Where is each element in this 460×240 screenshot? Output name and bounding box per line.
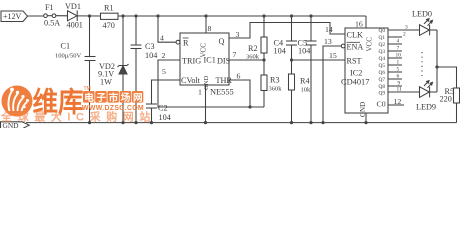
svg-text:10: 10 bbox=[396, 53, 402, 59]
svg-text:16: 16 bbox=[355, 20, 363, 29]
svg-text:全球最大IC采购网站: 全球最大IC采购网站 bbox=[0, 110, 156, 124]
wire CVolt pin5 bbox=[152, 80, 181, 104]
wire bus to R5 bbox=[437, 67, 457, 88]
capacitor C2 bbox=[146, 103, 157, 105]
svg-text:F1: F1 bbox=[45, 3, 54, 12]
svg-text:NE555: NE555 bbox=[210, 88, 234, 97]
svg-text:470: 470 bbox=[103, 21, 115, 30]
wire ENA pin13 bbox=[323, 46, 341, 123]
wire VD2 branch bbox=[122, 16, 124, 66]
wire VD1 to R1 bbox=[77, 15, 100, 17]
svg-text:VD1: VD1 bbox=[65, 2, 81, 11]
node junction VD2 bbox=[121, 14, 124, 17]
svg-text:THR: THR bbox=[216, 76, 233, 85]
svg-text:Q3: Q3 bbox=[379, 49, 386, 55]
wire TRIG pin2 bbox=[158, 60, 264, 107]
svg-text:GND: GND bbox=[359, 102, 367, 117]
svg-text:0.5A: 0.5A bbox=[44, 19, 60, 28]
svg-text:4001: 4001 bbox=[67, 21, 83, 30]
pin stub Q8 bbox=[388, 85, 402, 87]
svg-text:2: 2 bbox=[162, 51, 166, 60]
svg-text:Q5: Q5 bbox=[379, 63, 386, 69]
node junction pin4 bbox=[156, 14, 159, 17]
svg-text:100μ/50V: 100μ/50V bbox=[55, 53, 82, 60]
node junction C4 bbox=[290, 14, 293, 17]
node junction pin8 bbox=[204, 14, 207, 17]
node C3 ground bbox=[134, 121, 137, 124]
pin stub Q1 bbox=[388, 36, 402, 38]
svg-text:6: 6 bbox=[397, 74, 400, 80]
node C5 ground bbox=[309, 121, 312, 124]
orange blocks dianzi shichangwang bbox=[83, 91, 145, 104]
node VD2 ground bbox=[121, 121, 124, 124]
svg-text:1: 1 bbox=[397, 60, 400, 66]
svg-text:104: 104 bbox=[274, 47, 286, 56]
svg-text:13: 13 bbox=[324, 37, 332, 46]
svg-text:IC1: IC1 bbox=[204, 56, 216, 65]
node TRIG THR junction bbox=[248, 105, 251, 108]
svg-text:R2: R2 bbox=[248, 44, 258, 53]
svg-text:1: 1 bbox=[198, 88, 202, 97]
svg-text:7: 7 bbox=[397, 46, 400, 52]
svg-text:DIS: DIS bbox=[217, 57, 231, 66]
pin stub CO pin12 bbox=[388, 104, 404, 106]
svg-text:4: 4 bbox=[397, 39, 400, 45]
svg-text:5: 5 bbox=[162, 67, 166, 76]
svg-text:Q9: Q9 bbox=[379, 91, 386, 97]
svg-text:RST: RST bbox=[347, 57, 362, 66]
node junction C1 bbox=[88, 14, 91, 17]
fuse F1 bbox=[44, 14, 48, 18]
wire Q0 pin3 to LED0 bbox=[388, 29, 420, 31]
svg-text:4: 4 bbox=[160, 34, 164, 43]
pin stub Q7 bbox=[388, 78, 402, 80]
pin stub Q5 bbox=[388, 64, 402, 66]
resistor R4 bbox=[289, 74, 295, 90]
svg-text:LED9: LED9 bbox=[416, 103, 436, 112]
svg-text:Q0: Q0 bbox=[379, 28, 386, 34]
svg-text:CD4017: CD4017 bbox=[341, 78, 369, 87]
svg-text:104: 104 bbox=[159, 113, 171, 122]
node +12V flag bbox=[1, 11, 28, 22]
svg-text:电子市场网: 电子市场网 bbox=[84, 92, 145, 104]
capacitor C3 bbox=[131, 44, 142, 46]
capacitor C5 bbox=[306, 40, 317, 42]
wire ground rail bbox=[26, 122, 457, 124]
wire C1 branch bbox=[89, 16, 91, 56]
wire DIS pin7 bbox=[229, 59, 264, 61]
svg-text:VCC: VCC bbox=[366, 37, 374, 52]
wire fuse to VD1 bbox=[56, 15, 68, 17]
capacitor C1 bbox=[85, 56, 96, 58]
node junction C5 bbox=[309, 14, 312, 17]
svg-text:Q4: Q4 bbox=[379, 56, 386, 62]
wire pin16 VCC bbox=[365, 16, 367, 28]
node junction R2 bbox=[262, 14, 265, 17]
svg-text:R: R bbox=[183, 39, 189, 48]
svg-text:2: 2 bbox=[403, 32, 406, 38]
svg-text:C3: C3 bbox=[145, 42, 155, 51]
wire Q9 pin11 to LED9 bbox=[388, 91, 420, 93]
wire C4 R4 branch bbox=[291, 16, 293, 41]
svg-text:C0: C0 bbox=[377, 100, 386, 109]
svg-text:R3: R3 bbox=[270, 76, 280, 85]
wire LED cathode bus bbox=[436, 30, 438, 92]
node DIS junction bbox=[262, 58, 265, 61]
wire IC2 GND pin8 bbox=[365, 113, 367, 123]
svg-text:R1: R1 bbox=[104, 4, 114, 13]
op-amp U1 IC1 NE555 box bbox=[180, 33, 229, 85]
LED0 bbox=[420, 25, 430, 36]
svg-text:C1: C1 bbox=[61, 42, 71, 51]
wire C5 branch bbox=[310, 16, 312, 41]
svg-text:R4: R4 bbox=[300, 77, 310, 86]
svg-text:360k: 360k bbox=[269, 86, 283, 93]
diode VD1 bbox=[68, 11, 78, 21]
svg-text:Q7: Q7 bbox=[379, 77, 386, 83]
node ENA ground bbox=[321, 121, 324, 124]
node C1 ground bbox=[88, 121, 91, 124]
svg-text:Q6: Q6 bbox=[379, 70, 386, 76]
resistor R1 bbox=[101, 13, 119, 19]
svg-text:+12V: +12V bbox=[3, 12, 22, 21]
dotted ellipsis LEDs bbox=[421, 52, 423, 76]
svg-text:8: 8 bbox=[208, 24, 212, 33]
svg-text:3: 3 bbox=[405, 25, 408, 31]
svg-text:11: 11 bbox=[397, 87, 402, 93]
node bus R5 junction bbox=[435, 65, 438, 68]
wire C3 branch bbox=[135, 16, 137, 45]
wire RST pin15 bbox=[292, 59, 346, 61]
wire pin1 GND bbox=[205, 85, 207, 123]
resistor R3 bbox=[261, 75, 267, 91]
resistor R2 bbox=[261, 37, 267, 53]
svg-text:14: 14 bbox=[325, 25, 333, 34]
svg-text:1W: 1W bbox=[100, 78, 112, 87]
wire flag to fuse bbox=[28, 15, 44, 17]
IC U2 IC2 CD4017 box bbox=[345, 28, 388, 113]
wire top rail R1 to VCC corner bbox=[118, 15, 366, 17]
node R4 ground bbox=[290, 121, 293, 124]
pin stub Q2 bbox=[388, 43, 402, 45]
svg-text:Q2: Q2 bbox=[379, 42, 386, 48]
node C2 ground bbox=[150, 121, 153, 124]
IC2 output pin labels Q0-Q9 bbox=[379, 25, 409, 97]
svg-text:CLK: CLK bbox=[347, 31, 363, 40]
svg-text:ENA: ENA bbox=[347, 43, 364, 52]
logo circle bbox=[2, 86, 33, 117]
pin stub Q4 bbox=[388, 57, 402, 59]
svg-text:7: 7 bbox=[233, 50, 237, 59]
svg-text:Q8: Q8 bbox=[379, 84, 386, 90]
resistor R5 bbox=[454, 88, 460, 103]
svg-text:104: 104 bbox=[145, 51, 157, 60]
node GND flag bbox=[1, 122, 30, 129]
node IC2 ground bbox=[364, 121, 367, 124]
svg-text:104: 104 bbox=[298, 47, 310, 56]
svg-text:LED0: LED0 bbox=[412, 10, 432, 19]
svg-text:6: 6 bbox=[237, 72, 241, 81]
svg-text:IC2: IC2 bbox=[350, 69, 362, 78]
svg-text:360k: 360k bbox=[246, 54, 260, 61]
wire pin4 reset bbox=[158, 16, 176, 42]
svg-text:GND: GND bbox=[203, 75, 210, 90]
svg-text:Q1: Q1 bbox=[379, 35, 386, 41]
svg-text:5: 5 bbox=[397, 67, 400, 73]
node RST junction bbox=[290, 58, 293, 61]
svg-text:CVolt: CVolt bbox=[181, 76, 201, 85]
pin stub Q3 bbox=[388, 50, 402, 52]
svg-text:3: 3 bbox=[236, 30, 240, 39]
pin stub Q6 bbox=[388, 71, 402, 73]
svg-text:TRIG: TRIG bbox=[182, 57, 201, 66]
watermark bbox=[0, 86, 156, 124]
node junction C3 bbox=[134, 14, 137, 17]
wire R2 branch bbox=[263, 16, 265, 37]
wire Q pin3 to CLK bbox=[229, 23, 345, 39]
svg-text:C2: C2 bbox=[158, 104, 168, 113]
capacitor C4 bbox=[286, 40, 297, 42]
node pin1 ground bbox=[204, 121, 207, 124]
svg-text:220: 220 bbox=[440, 95, 452, 104]
svg-text:15: 15 bbox=[329, 51, 337, 60]
svg-text:Q: Q bbox=[219, 37, 225, 46]
svg-text:10k: 10k bbox=[301, 87, 312, 94]
LED9 bbox=[420, 87, 430, 98]
svg-text:12: 12 bbox=[394, 97, 402, 106]
wire pin8 VCC bbox=[205, 16, 207, 33]
zener diode VD2 bbox=[119, 65, 127, 67]
wire THR pin6 bbox=[229, 80, 250, 107]
